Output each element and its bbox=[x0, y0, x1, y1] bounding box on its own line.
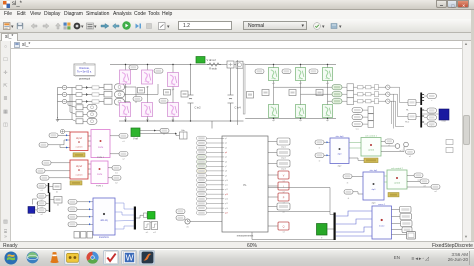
busbar C bbox=[334, 213, 336, 241]
scope tag B bbox=[427, 108, 437, 113]
input tag dq1 bbox=[68, 200, 77, 205]
out scope red 3 bbox=[268, 193, 289, 201]
svg-text:PL: PL bbox=[243, 183, 247, 187]
wire: A blue to green bbox=[349, 143, 361, 149]
window title bar bbox=[0, 0, 474, 10]
goto tag olive 3 bbox=[70, 181, 82, 185]
svg-text:sel control 2: sel control 2 bbox=[391, 167, 404, 170]
svg-text:Q: Q bbox=[283, 226, 285, 229]
svg-text:V ref: V ref bbox=[133, 138, 138, 141]
gate tag p2 bbox=[282, 69, 291, 74]
left palette bbox=[0, 41, 11, 241]
out disp C2 bbox=[400, 214, 412, 220]
svg-text:b1: b1 bbox=[115, 173, 118, 175]
IGBT Q6 bbox=[323, 105, 333, 118]
breadcrumb bbox=[11, 41, 474, 49]
label: misc tiny captions bbox=[30, 62, 437, 239]
svg-text:meas 1: meas 1 bbox=[378, 204, 386, 206]
Vbc tag bbox=[352, 115, 363, 120]
input tag ref1 bbox=[49, 133, 58, 138]
svg-text:p5: p5 bbox=[225, 157, 227, 159]
wire: rowA in bbox=[324, 141, 330, 156]
RL filter 2 bbox=[358, 92, 386, 97]
input tag rA1 bbox=[315, 140, 324, 145]
svg-text:g4: g4 bbox=[124, 119, 127, 121]
vdc sense block bbox=[247, 92, 254, 99]
svg-text:o1: o1 bbox=[409, 156, 412, 158]
input tag dq4 bbox=[68, 222, 77, 227]
output tag row1 a bbox=[119, 134, 128, 139]
out circle A1 bbox=[395, 144, 400, 149]
svg-text:b2: b2 bbox=[115, 183, 118, 185]
out display 4 bbox=[268, 203, 290, 210]
angle block t3 bbox=[87, 232, 93, 239]
ref tag far right 1 bbox=[446, 140, 453, 145]
svg-text:Vdc: Vdc bbox=[181, 130, 186, 132]
svg-text:current: current bbox=[76, 146, 83, 149]
lower measure row 3 bbox=[72, 118, 97, 124]
out display 1 bbox=[268, 138, 290, 145]
out tag B1 bbox=[414, 173, 423, 178]
wire: inverter legs bbox=[274, 65, 328, 119]
IGBT Q5 bbox=[296, 105, 306, 118]
out tag B2 bbox=[420, 179, 429, 184]
wire: A outputs bbox=[349, 142, 404, 161]
wire: into controller 1 bbox=[48, 134, 70, 148]
IGBT S5 bbox=[142, 103, 153, 117]
wire: modulator1 outputs bbox=[110, 136, 119, 154]
AC source Vb bbox=[62, 92, 67, 97]
demux block bl bbox=[53, 184, 61, 190]
gate driver block d2 bbox=[164, 90, 171, 96]
svg-text:q5: q5 bbox=[299, 120, 302, 122]
phase tag green 1 bbox=[332, 85, 342, 90]
svg-text:g3: g3 bbox=[172, 89, 175, 91]
tag col mini 1 bbox=[176, 209, 185, 214]
svg-text:RL2: RL2 bbox=[405, 122, 410, 124]
goto green mid bbox=[148, 212, 156, 220]
I measure circle 3 bbox=[386, 99, 390, 103]
RL filter 1 bbox=[358, 85, 386, 90]
svg-text:st2: st2 bbox=[153, 231, 157, 234]
wire: into controller 2 bbox=[45, 163, 70, 178]
wire: DC bottom bus pink bbox=[119, 120, 244, 121]
input tag ref4 bbox=[36, 169, 45, 174]
input tag ref3 bbox=[42, 161, 51, 166]
wire: bridge verticals bbox=[126, 84, 174, 121]
svg-text:clk: clk bbox=[186, 227, 188, 229]
svg-text:vca: vca bbox=[356, 129, 360, 131]
wire: measure outputs bbox=[390, 87, 408, 128]
svg-text:g6: g6 bbox=[172, 119, 175, 121]
svg-text:d4: d4 bbox=[282, 212, 285, 214]
clock circle bbox=[185, 219, 222, 224]
transform subsystem blue bbox=[93, 198, 115, 239]
wire: input column to block bbox=[207, 138, 223, 212]
svg-text:d1: d1 bbox=[56, 192, 59, 194]
out display 2 bbox=[268, 149, 290, 156]
step source 1 bbox=[144, 222, 150, 230]
RL branch A bbox=[104, 84, 125, 90]
svg-text:abc-dq: abc-dq bbox=[100, 220, 108, 222]
wire: rails from sources down bbox=[58, 88, 73, 120]
input tag rB2 bbox=[344, 190, 353, 195]
wire: phase outputs to measure bbox=[274, 87, 333, 101]
gate tag g2 bbox=[154, 69, 163, 74]
svg-text:p6: p6 bbox=[225, 161, 227, 163]
wire: blue subsystem outputs to busbar bbox=[115, 203, 134, 229]
out scope C5 bbox=[407, 232, 416, 240]
Vca tag bbox=[352, 122, 363, 127]
input port labels bbox=[225, 138, 228, 214]
mux m3 bbox=[363, 121, 374, 128]
svg-text:RL: RL bbox=[406, 110, 410, 112]
series inductor Ls bbox=[207, 63, 221, 71]
svg-text:disp1: disp1 bbox=[281, 147, 287, 149]
svg-text:g2: g2 bbox=[146, 87, 149, 89]
wire: phase A to measure bbox=[67, 86, 104, 90]
svg-text:W: W bbox=[126, 253, 134, 262]
svg-text:Ts = 5e-05 s.: Ts = 5e-05 s. bbox=[77, 70, 92, 74]
IGBT S3 bbox=[168, 73, 179, 87]
I measure circle 1 bbox=[386, 85, 390, 89]
label: load caption bbox=[405, 110, 446, 124]
svg-text:transform: transform bbox=[99, 236, 109, 239]
svg-text:Discrete,: Discrete, bbox=[79, 66, 90, 70]
svg-text:abc dq1: abc dq1 bbox=[370, 170, 379, 172]
label: green bridge caption bbox=[272, 83, 329, 122]
svg-text:dq2: dq2 bbox=[338, 166, 342, 168]
IGBT Q2 bbox=[296, 68, 306, 81]
scope tag D bbox=[427, 122, 437, 127]
busbar mid bbox=[134, 207, 136, 230]
svg-text:p15: p15 bbox=[225, 203, 228, 205]
svg-text:p14: p14 bbox=[225, 199, 228, 201]
rate transition block bbox=[180, 130, 188, 139]
wire: busbar links bbox=[416, 96, 439, 124]
wire: phase feeds into bridge bbox=[125, 84, 159, 110]
svg-text:R snub: R snub bbox=[209, 68, 217, 71]
vertical scrollbar bbox=[462, 41, 471, 241]
load block 1 bbox=[408, 100, 416, 106]
svg-text:i1: i1 bbox=[319, 148, 321, 150]
IGBT S2 bbox=[142, 70, 153, 84]
goto source green bbox=[196, 57, 216, 64]
tag bl1 bbox=[37, 184, 46, 189]
out scope red 1 bbox=[268, 171, 289, 179]
wire: into busbar C bbox=[327, 188, 334, 230]
svg-text:q3: q3 bbox=[326, 83, 329, 85]
svg-text:p10: p10 bbox=[225, 180, 228, 182]
controller subsystem red 1 bbox=[70, 132, 88, 151]
phase tag green 3 bbox=[332, 99, 342, 104]
ref tag far right 2 bbox=[446, 148, 453, 153]
svg-text:q1: q1 bbox=[272, 83, 275, 85]
svg-text:powergui: powergui bbox=[79, 77, 91, 81]
modulator subsystem pink 2 bbox=[91, 161, 108, 184]
gate tag g4 bbox=[159, 99, 168, 104]
svg-text:p13: p13 bbox=[225, 194, 228, 196]
mux m1 bbox=[363, 107, 374, 114]
sum junction bbox=[60, 129, 70, 135]
busbar load bottom bbox=[420, 108, 424, 128]
gate driver block d1 bbox=[138, 88, 145, 94]
svg-text:q6: q6 bbox=[326, 120, 329, 122]
svg-text:i2: i2 bbox=[319, 161, 321, 163]
svg-text:C in2: C in2 bbox=[195, 106, 202, 110]
out disp C4 bbox=[402, 227, 412, 233]
svg-text:p8: p8 bbox=[225, 171, 227, 173]
svg-text:sc: sc bbox=[30, 216, 32, 218]
selector 2 bbox=[342, 91, 358, 98]
out disp C1 bbox=[400, 207, 412, 213]
AC source Vc bbox=[62, 99, 67, 104]
I measure circle 2 bbox=[386, 92, 390, 96]
menu bar bbox=[0, 10, 474, 19]
out disp C3 bbox=[401, 221, 413, 227]
wire: B blue to green bbox=[384, 176, 387, 182]
windows taskbar bbox=[0, 248, 474, 266]
gate tag p3 bbox=[309, 69, 318, 74]
input tag column bbox=[197, 136, 207, 215]
input tag ref2 bbox=[39, 143, 48, 148]
wire: rowB in bbox=[352, 176, 363, 194]
model canvas bbox=[11, 49, 462, 241]
IGBT S1 bbox=[120, 70, 131, 84]
wire: neutral rail bbox=[58, 88, 63, 119]
IGBT S4 bbox=[120, 103, 131, 117]
vdc measure block left bbox=[181, 91, 188, 97]
wire: bl connections bbox=[33, 186, 55, 211]
svg-text:control: control bbox=[394, 182, 401, 185]
svg-text:pg: pg bbox=[83, 62, 85, 64]
input port ticks bbox=[222, 138, 224, 212]
out scope red small bbox=[268, 222, 289, 230]
out tag A2 bbox=[406, 150, 415, 155]
wire: long pulse line bbox=[252, 188, 334, 240]
wire: vref to tag bbox=[140, 130, 160, 132]
svg-text:i4: i4 bbox=[348, 198, 350, 200]
svg-text:PWM 1: PWM 1 bbox=[97, 157, 105, 159]
wire: phase C to measure bbox=[67, 100, 104, 104]
tag vref bbox=[160, 128, 169, 133]
snubber b2 bbox=[289, 90, 296, 96]
input tag dq3 bbox=[68, 215, 77, 220]
out circle A2 bbox=[404, 142, 409, 147]
svg-text:p4: p4 bbox=[225, 152, 227, 154]
big subsystem bbox=[222, 136, 268, 238]
IGBT Q3 bbox=[323, 68, 333, 81]
input tag ref5 bbox=[40, 176, 49, 181]
label: pink bridge caption bbox=[124, 87, 175, 121]
RL branch B bbox=[104, 91, 125, 97]
svg-text:p2: p2 bbox=[225, 143, 227, 145]
svg-text:p1: p1 bbox=[225, 138, 227, 140]
wire: busbar C to motor blue bbox=[336, 211, 372, 236]
toolbar bbox=[0, 19, 474, 33]
svg-text:load: load bbox=[442, 120, 447, 122]
demux block bl2 bbox=[54, 197, 62, 204]
gate tag g3 bbox=[133, 97, 142, 102]
constant green Vref bbox=[131, 128, 140, 141]
wire: controller1 to modulator1 bbox=[88, 136, 91, 146]
svg-text:v4: v4 bbox=[40, 214, 43, 216]
svg-text:motor: motor bbox=[379, 225, 385, 228]
svg-text:dq ref: dq ref bbox=[76, 165, 82, 168]
scope tag A bbox=[427, 94, 437, 99]
tag bl3 bbox=[37, 201, 46, 206]
tab strip bbox=[0, 33, 474, 41]
sel subsystem blue B bbox=[363, 170, 384, 200]
scope tag C bbox=[427, 115, 437, 120]
svg-text:PWM: PWM bbox=[97, 174, 103, 176]
svg-text:sel control 1: sel control 1 bbox=[365, 135, 378, 138]
input tag rA2 bbox=[315, 153, 324, 158]
sel subsystem blue A bbox=[330, 136, 349, 164]
out display 3 bbox=[268, 160, 290, 167]
svg-text:v: v bbox=[431, 100, 432, 102]
out scope red 2 bbox=[268, 182, 289, 190]
svg-text:p11: p11 bbox=[225, 185, 228, 187]
output tag row2 a bbox=[112, 166, 121, 171]
powergui block bbox=[74, 64, 95, 81]
modulator subsystem pink 1 bbox=[91, 130, 110, 158]
svg-text:o4: o4 bbox=[434, 191, 437, 193]
three-phase load blue bbox=[439, 109, 449, 120]
goto tag olive 1 bbox=[73, 153, 85, 157]
load block 2 bbox=[408, 114, 416, 120]
IGBT Q4 bbox=[269, 105, 279, 118]
svg-text:d2: d2 bbox=[57, 205, 60, 207]
svg-text:sc1: sc1 bbox=[399, 150, 403, 152]
gate tag g1 bbox=[129, 65, 138, 70]
svg-text:p7: p7 bbox=[225, 166, 227, 168]
svg-text:p3: p3 bbox=[225, 147, 227, 149]
RL branch C bbox=[104, 99, 125, 105]
svg-text:current: current bbox=[76, 174, 83, 177]
svg-text:v1: v1 bbox=[40, 190, 43, 192]
output tag row1 b bbox=[119, 152, 128, 157]
svg-text:s4: s4 bbox=[282, 232, 285, 234]
svg-text:control: control bbox=[368, 149, 375, 152]
svg-text:disp2: disp2 bbox=[281, 158, 287, 160]
wire: DC top bus bbox=[110, 64, 244, 73]
lower measure row 1 bbox=[68, 104, 97, 110]
svg-text:p9: p9 bbox=[225, 175, 227, 177]
snubber b3 bbox=[316, 90, 323, 96]
svg-text:q2: q2 bbox=[299, 83, 302, 85]
selector 1 bbox=[342, 84, 358, 91]
input tag rB1 bbox=[343, 174, 352, 179]
svg-text:st1: st1 bbox=[146, 231, 150, 234]
svg-text:PWM: PWM bbox=[98, 147, 104, 149]
RL filter 3 bbox=[358, 99, 386, 104]
out tag A1 bbox=[385, 139, 394, 144]
tag bl2 bbox=[37, 194, 46, 199]
phase tag green 2 bbox=[332, 92, 342, 97]
wire: B outputs bbox=[407, 175, 431, 187]
output tag row2 b bbox=[112, 176, 121, 181]
svg-text:q4: q4 bbox=[272, 120, 275, 122]
svg-text:PWM 2: PWM 2 bbox=[96, 186, 104, 188]
goto tag olive B bbox=[388, 193, 399, 197]
lower measure row 2 bbox=[70, 111, 97, 117]
wire: dq inputs bbox=[77, 201, 93, 226]
diode block 2 bbox=[236, 61, 243, 68]
Vab tag bbox=[352, 108, 363, 113]
busbar load top bbox=[420, 93, 424, 106]
svg-text:V dc ref: V dc ref bbox=[207, 58, 216, 62]
diode block bbox=[227, 61, 234, 68]
input tag dq2 bbox=[68, 207, 77, 212]
wire: controller2 to modulator2 bbox=[88, 164, 91, 174]
AC source Va bbox=[62, 85, 67, 90]
angle block t2 bbox=[81, 232, 87, 239]
calc subsystem green B bbox=[387, 167, 407, 189]
busbar bl2 bbox=[49, 193, 50, 213]
svg-text:disp3: disp3 bbox=[281, 169, 287, 171]
capacitor C in4 bbox=[228, 65, 242, 122]
wire: vref to rate block bbox=[140, 133, 180, 136]
label: source caption bbox=[0, 0, 1, 1]
tag bl4 bbox=[37, 208, 46, 213]
ground bbox=[56, 117, 59, 122]
wire: modulator2 outputs bbox=[108, 168, 112, 178]
wire: phase B to measure bbox=[67, 93, 104, 97]
motor subsystem blue C bbox=[372, 204, 392, 239]
svg-text:t1: t1 bbox=[388, 144, 391, 147]
calc subsystem green A bbox=[361, 135, 381, 157]
DC link capacitor bank bbox=[238, 60, 246, 125]
goto green C bbox=[317, 224, 328, 236]
svg-text:a2: a2 bbox=[122, 159, 125, 161]
svg-text:ref: ref bbox=[163, 134, 166, 136]
wire: C outputs bbox=[392, 210, 407, 235]
controller subsystem red 2 bbox=[70, 160, 88, 179]
svg-text:a1: a1 bbox=[122, 141, 125, 143]
mux m2 bbox=[363, 114, 374, 121]
svg-text:g5: g5 bbox=[146, 119, 149, 121]
step source 2 bbox=[152, 222, 158, 230]
wire: dc link to inverter bbox=[212, 64, 336, 129]
status bar bbox=[0, 241, 474, 248]
tag col mini 2 bbox=[176, 216, 185, 221]
svg-text:abc dq0: abc dq0 bbox=[336, 136, 345, 138]
relay block bbox=[144, 213, 148, 218]
label: control captions bbox=[96, 157, 384, 244]
svg-text:dq ref: dq ref bbox=[76, 137, 82, 140]
scope navy bbox=[28, 206, 38, 214]
busbar bl1 bbox=[48, 183, 49, 193]
svg-text:i3: i3 bbox=[347, 183, 349, 185]
IGBT Q1 bbox=[269, 68, 279, 81]
svg-text:dq3: dq3 bbox=[372, 203, 376, 205]
IGBT S6 bbox=[168, 103, 179, 117]
capacitor C in2 bbox=[188, 65, 202, 122]
wire: busbar to green bbox=[136, 215, 144, 218]
goto tag olive A bbox=[364, 158, 378, 163]
svg-text:p17: p17 bbox=[225, 212, 228, 214]
out tag B3 bbox=[431, 185, 440, 190]
svg-text:measurements: measurements bbox=[237, 235, 254, 238]
snubber b1 bbox=[262, 90, 269, 96]
selector 3 bbox=[342, 98, 358, 105]
svg-text:C in4: C in4 bbox=[235, 106, 242, 110]
svg-text:g: g bbox=[321, 237, 322, 239]
angle block t1 bbox=[74, 232, 80, 239]
svg-text:p12: p12 bbox=[225, 189, 228, 191]
gate tag p1 bbox=[255, 69, 264, 74]
